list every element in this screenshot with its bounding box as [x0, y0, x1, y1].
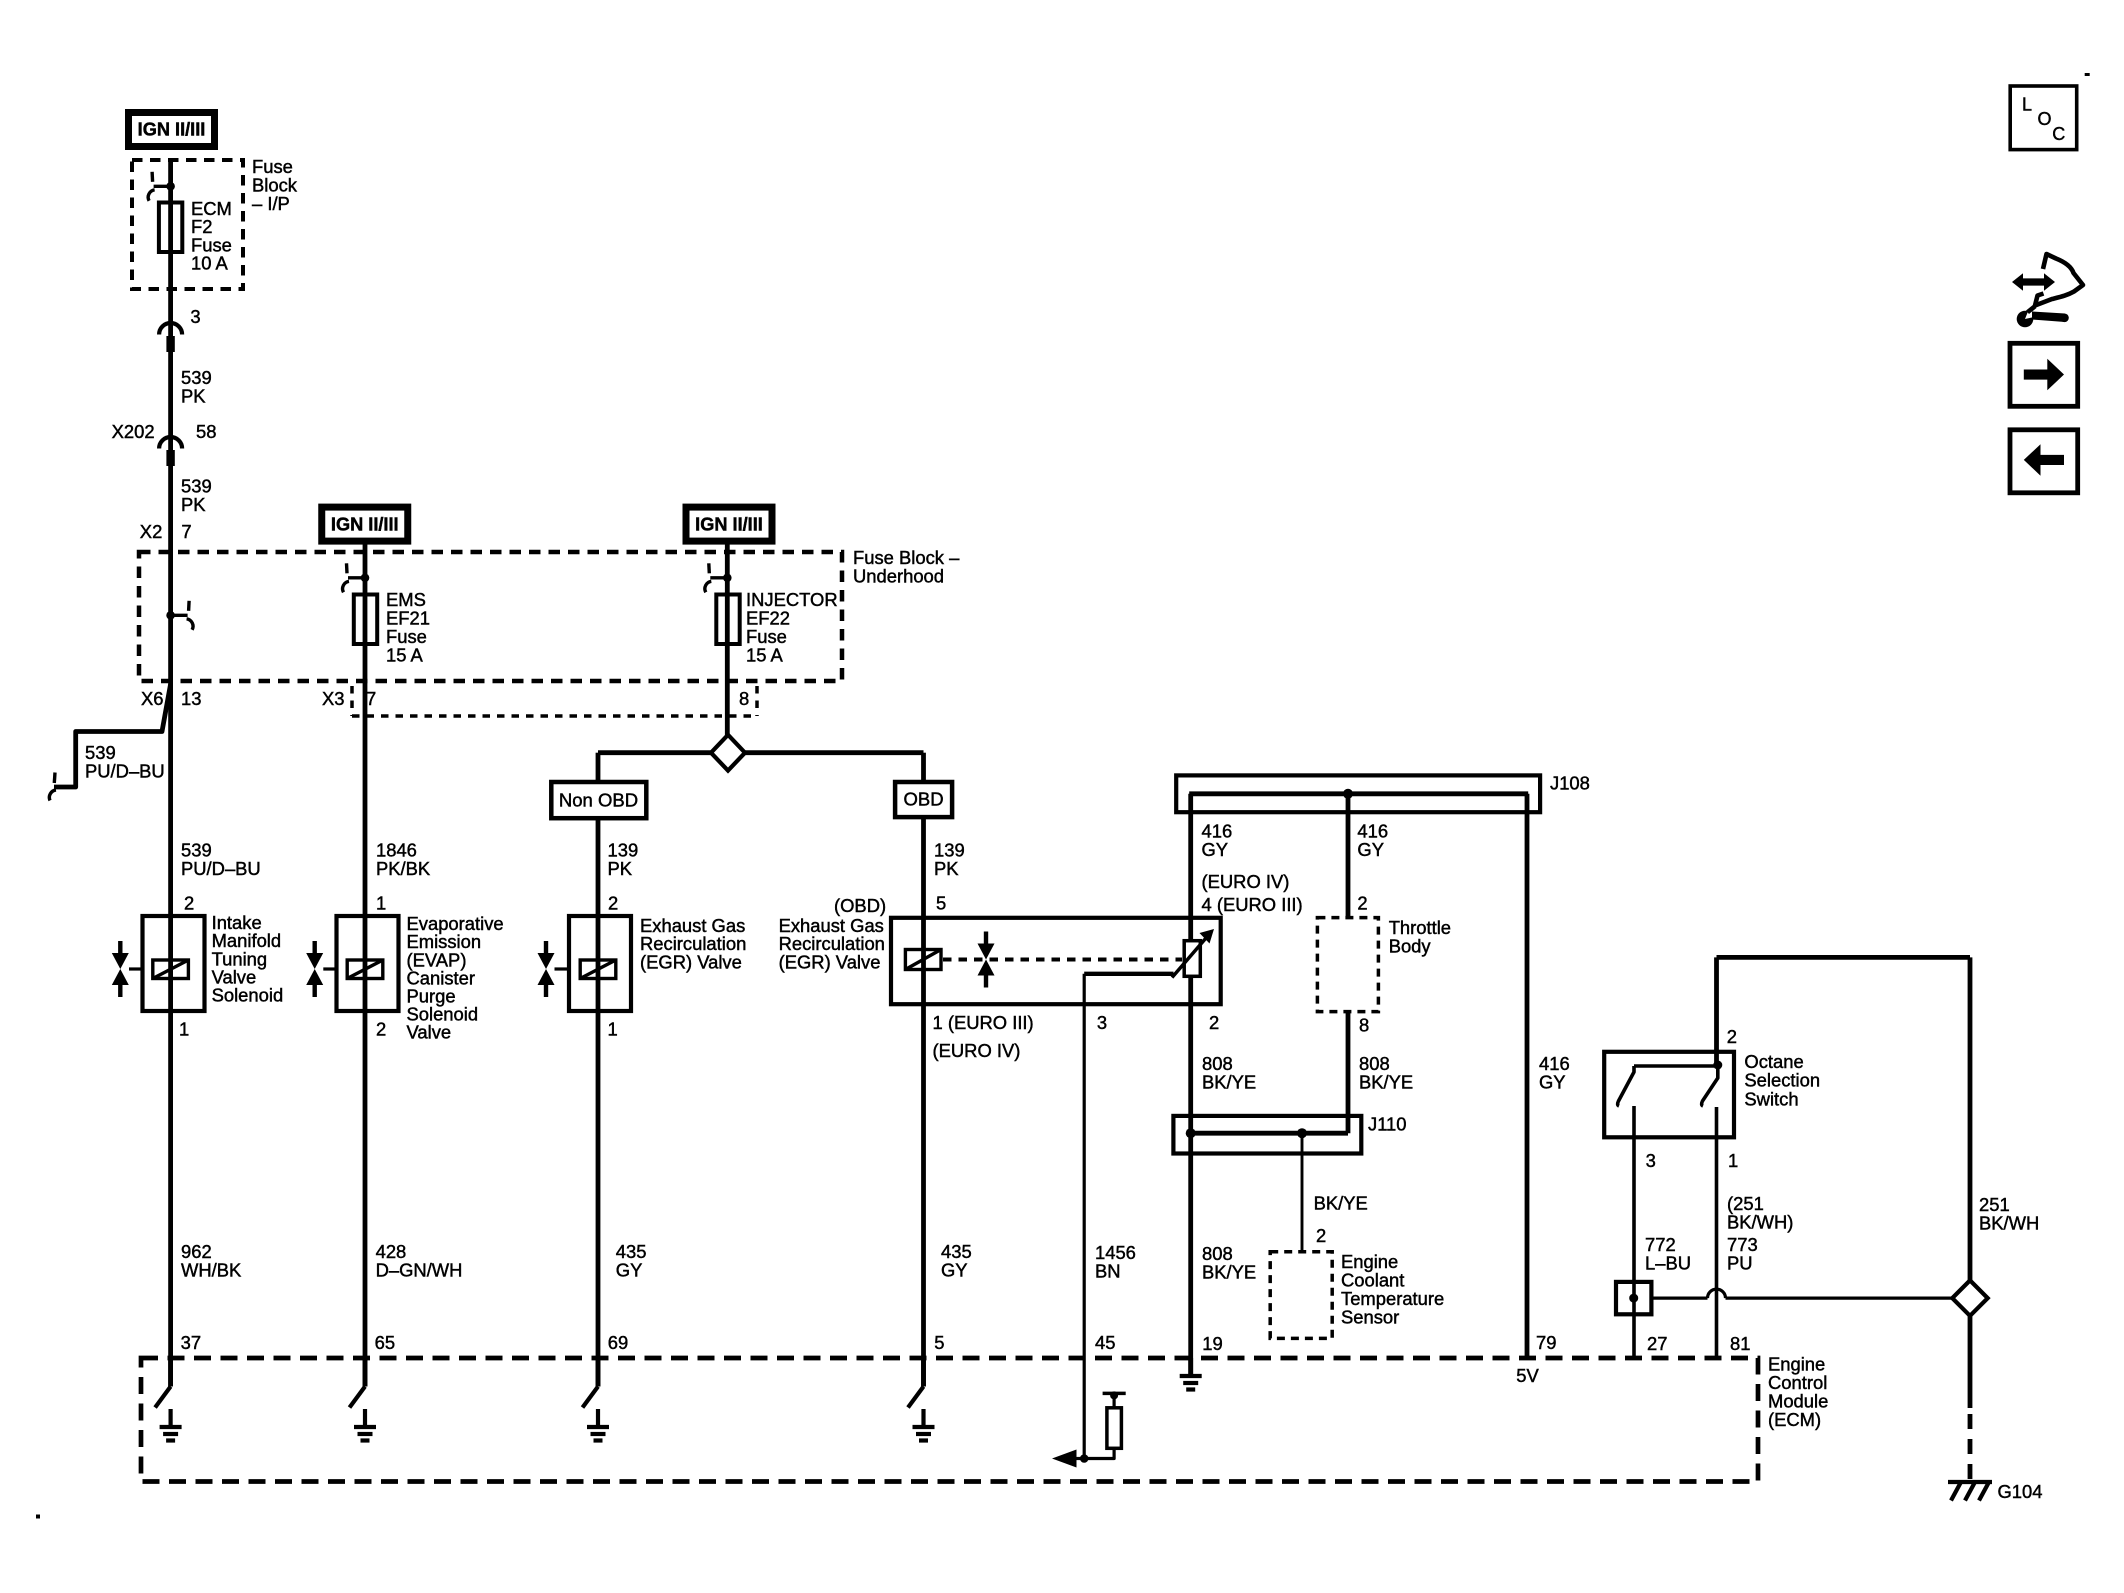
svg-text:C: C — [2052, 124, 2065, 144]
EVAP canister purge solenoid valve box — [337, 916, 399, 1011]
svg-text:1: 1 — [376, 893, 386, 914]
J108 internal bus — [1189, 791, 1528, 796]
svg-text:PK: PK — [608, 858, 633, 879]
svg-text:IGN II/III: IGN II/III — [695, 514, 763, 534]
svg-text:PU/D–BU: PU/D–BU — [181, 858, 261, 879]
wire 139 PK to OBD branch — [745, 750, 924, 755]
svg-text:15 A: 15 A — [746, 644, 784, 665]
ECM internal ground, pin 37 — [168, 1358, 173, 1387]
wrench icon — [2017, 311, 2034, 328]
wire 808 BK/YE from EGR pin 2 through J110 to ECM pin 19 — [1188, 976, 1193, 1376]
ECM internal: arrow + pull-up resistor at pin 45 — [1074, 1457, 1084, 1460]
svg-text:58: 58 — [196, 421, 216, 442]
ECM internal ground, pin 69 — [596, 1358, 601, 1387]
EGR position sensor (potentiometer) — [1184, 941, 1200, 977]
Fuse Block - I/P dashed enclosure — [132, 160, 243, 289]
svg-text:(EGR) Valve: (EGR) Valve — [779, 951, 881, 972]
svg-text:Body: Body — [1389, 936, 1432, 957]
svg-text:IGN II/III: IGN II/III — [331, 514, 399, 534]
svg-text:O: O — [2038, 109, 2052, 129]
svg-text:7: 7 — [181, 521, 191, 542]
svg-text:37: 37 — [181, 1332, 201, 1353]
svg-text:27: 27 — [1647, 1333, 1667, 1354]
wire 808 BK/YE throttle body pin 8 to J110 — [1346, 1012, 1351, 1133]
svg-text:Valve: Valve — [407, 1022, 452, 1043]
J110 internal bus — [1189, 1131, 1348, 1136]
J108 bus junction — [1343, 789, 1353, 799]
svg-text:2: 2 — [184, 893, 194, 914]
svg-text:GY: GY — [616, 1260, 643, 1281]
chassis ground G104 — [1948, 1480, 1992, 1484]
svg-text:BK/WH: BK/WH — [1979, 1213, 2039, 1234]
svg-text:8: 8 — [1359, 1015, 1369, 1036]
wire 251 BK/WH to ground G104 — [1968, 1316, 1973, 1408]
svg-text:2: 2 — [376, 1019, 386, 1040]
fuse clip terminal INJECTOR EF22 — [723, 574, 732, 583]
svg-text:X3: X3 — [322, 688, 345, 709]
power flag IGN II/III (top left) — [125, 109, 218, 150]
octane switch blade (right) — [1702, 1066, 1718, 1106]
svg-text:45: 45 — [1095, 1332, 1115, 1353]
svg-text:X6: X6 — [141, 688, 164, 709]
vacuum valve symbol (EVAP) — [313, 941, 317, 954]
svg-text:3: 3 — [1646, 1150, 1656, 1171]
LOC legend box — [2010, 86, 2077, 150]
wire 139 PK / 435 GY (OBD EGR) — [921, 817, 926, 1387]
EGR internal control dashed link — [943, 958, 1182, 962]
svg-text:79: 79 — [1536, 1332, 1556, 1353]
svg-text:Solenoid: Solenoid — [212, 985, 284, 1006]
svg-text:X2: X2 — [140, 521, 163, 542]
wire 773 PU octane pin 1 to ECM pin 81 — [1715, 1107, 1719, 1358]
solenoid coil (EVAP) — [347, 960, 383, 979]
svg-text:(EURO IV): (EURO IV) — [1202, 871, 1290, 892]
forward arrow legend box — [2010, 343, 2078, 406]
svg-text:1: 1 — [179, 1019, 189, 1040]
junction dot in connector — [1629, 1294, 1638, 1303]
vacuum valve symbol (intake manifold tuning valve) — [118, 941, 122, 954]
ECM internal ground, pin 65 — [363, 1358, 368, 1387]
svg-text:X202: X202 — [112, 421, 155, 442]
svg-text:2: 2 — [1209, 1012, 1219, 1033]
fuse ECM F2 10A — [159, 203, 182, 253]
svg-text:(OBD): (OBD) — [834, 895, 886, 916]
svg-text:J108: J108 — [1550, 773, 1590, 794]
svg-text:19: 19 — [1202, 1333, 1222, 1354]
wire resistor top stub — [1112, 1393, 1115, 1407]
svg-text:2: 2 — [608, 893, 618, 914]
fuse clip terminal EMS EF21 — [361, 574, 370, 583]
terminal hook at left end of 539 PU/D-BU branch — [53, 773, 57, 784]
vacuum valve symbol (EGR Non OBD) — [544, 941, 548, 954]
svg-text:IGN II/III: IGN II/III — [138, 120, 206, 140]
svg-text:4 (EURO III): 4 (EURO III) — [1202, 894, 1303, 915]
svg-text:L–BU: L–BU — [1645, 1253, 1691, 1274]
valve-to-solenoid dash (EVAP) — [323, 967, 335, 970]
svg-text:PK: PK — [181, 386, 206, 407]
svg-text:Non OBD: Non OBD — [559, 790, 638, 811]
svg-text:PU: PU — [1727, 1253, 1753, 1274]
svg-text:13: 13 — [181, 688, 201, 709]
Fuse Block - Underhood dashed enclosure — [139, 552, 842, 681]
solenoid coil (EGR Non OBD) — [580, 960, 616, 979]
svg-text:PK: PK — [181, 494, 206, 515]
splice diamond (251 BK/WH) — [1952, 1280, 1987, 1315]
splice pack J110 — [1173, 1116, 1361, 1154]
svg-text:Sensor: Sensor — [1341, 1306, 1399, 1327]
EGR valve (OBD) outline box — [891, 918, 1221, 1004]
power flag IGN II/III (EMS fuse) — [318, 504, 411, 545]
wiper arrowhead — [1200, 929, 1215, 944]
svg-text:BK/YE: BK/YE — [1314, 1193, 1368, 1214]
wire 539 PK / PU/D-BU / 962 WH/BK (left chain) — [168, 160, 173, 1387]
wire to octane switch pin 2 — [1714, 957, 1719, 1065]
left-pointing arrowhead — [1052, 1450, 1077, 1468]
junction dot at pin45 node — [1080, 1454, 1089, 1463]
svg-text:PK/BK: PK/BK — [376, 858, 431, 879]
branch wire 539 PU/D-BU to the left at X6/13 — [54, 684, 171, 787]
wire resistor bottom to node — [1084, 1448, 1114, 1458]
wire 416 GY from J108 to throttle body pin 2 — [1346, 794, 1351, 918]
svg-text:GY: GY — [1202, 839, 1229, 860]
Engine Control Module (ECM) dashed enclosure — [141, 1358, 1758, 1482]
intake manifold tuning valve solenoid box — [143, 916, 205, 1011]
resistor (ECM internal) — [1107, 1408, 1122, 1449]
svg-text:BK/YE: BK/YE — [1202, 1262, 1256, 1283]
fuse clip terminal in I/P fuse block — [166, 182, 175, 191]
svg-text:GY: GY — [1539, 1072, 1566, 1093]
svg-text:G104: G104 — [1998, 1481, 2043, 1502]
solenoid coil (intake manifold tuning valve) — [153, 960, 189, 979]
svg-text:5: 5 — [934, 1332, 944, 1353]
double-headed arrow — [2012, 273, 2055, 290]
connector X202 pin 58 — [159, 437, 182, 449]
wire 139 PK / 435 GY (Non OBD EGR) — [596, 818, 601, 1387]
svg-text:5: 5 — [936, 893, 946, 914]
svg-text:(EURO IV): (EURO IV) — [933, 1040, 1021, 1061]
svg-text:– I/P: – I/P — [252, 193, 290, 214]
wire 416 GY from J108 to EGR pin 4 — [1188, 794, 1193, 941]
stray mark bottom left — [36, 1515, 40, 1519]
svg-text:3: 3 — [190, 306, 200, 327]
wire (dashed) to G104 — [1968, 1414, 1973, 1479]
backward arrow legend box — [2010, 430, 2078, 493]
vacuum valve symbol (EGR OBD) — [984, 932, 988, 945]
svg-text:5V: 5V — [1516, 1365, 1539, 1386]
svg-text:Underhood: Underhood — [853, 566, 944, 587]
wire 772 L-BU octane pin 3 to ECM pin 27 — [1632, 1106, 1636, 1358]
svg-text:69: 69 — [608, 1332, 628, 1353]
svg-text:2: 2 — [1316, 1225, 1326, 1246]
svg-text:15 A: 15 A — [386, 644, 424, 665]
svg-text:10 A: 10 A — [191, 252, 229, 273]
svg-text:GY: GY — [1357, 839, 1384, 860]
svg-text:GY: GY — [941, 1260, 968, 1281]
power flag IGN II/III (INJECTOR fuse) — [683, 504, 776, 545]
svg-text:WH/BK: WH/BK — [181, 1260, 242, 1281]
svg-text:(ECM): (ECM) — [1768, 1409, 1821, 1430]
connector X3 dotted outline (pins 7 and 8) — [350, 686, 354, 716]
svg-text:1: 1 — [608, 1019, 618, 1040]
octane switch blade (left) — [1618, 1066, 1634, 1106]
wire 251 BK/WH right drop — [1968, 957, 1973, 1280]
svg-text:81: 81 — [1730, 1333, 1750, 1354]
svg-text:D–GN/WH: D–GN/WH — [376, 1260, 463, 1281]
svg-text:BK/YE: BK/YE — [1359, 1072, 1413, 1093]
fuse EMS EF21 15A — [354, 595, 377, 645]
svg-text:3: 3 — [1097, 1012, 1107, 1033]
fuse INJECTOR EF22 15A — [716, 595, 739, 645]
OBD flag box — [895, 782, 952, 817]
throttle body dashed box — [1317, 918, 1378, 1012]
wiper output wire inside EGR — [1084, 972, 1173, 976]
wire (251 BK/WH) from connector to diamond splice, hopping over 773 PU — [1651, 1296, 1707, 1299]
svg-text:BN: BN — [1095, 1261, 1121, 1282]
J110 bus junction left — [1186, 1128, 1196, 1138]
valve-to-solenoid dash — [129, 967, 141, 970]
solenoid coil (EGR OBD) — [905, 950, 941, 970]
wire BK/YE to engine coolant temperature sensor pin 2 — [1301, 1133, 1304, 1252]
potentiometer wiper arrow — [1172, 938, 1206, 978]
J110 bus junction (ECT branch) — [1297, 1128, 1307, 1138]
terminal clip (underhood block, X2/7 wire) — [166, 611, 175, 620]
wire 1846 PK/BK / 428 D-GN/WH (EVAP chain) — [363, 544, 368, 1387]
wire 416 GY from J108 to ECM pin 79 (5V) — [1525, 794, 1530, 1359]
Non OBD flag box — [551, 782, 646, 818]
left arrow — [2024, 444, 2064, 476]
connector pin 3 (fuse block I/P output) — [159, 323, 182, 334]
svg-text:BK/YE: BK/YE — [1202, 1072, 1256, 1093]
octane selection switch box — [1604, 1052, 1734, 1138]
svg-text:J110: J110 — [1368, 1113, 1407, 1134]
svg-text:BK/WH): BK/WH) — [1727, 1212, 1793, 1233]
ECM internal ground, pin 19 — [1188, 1358, 1193, 1376]
svg-text:7: 7 — [366, 688, 376, 709]
svg-text:L: L — [2022, 95, 2032, 115]
svg-text:2: 2 — [1727, 1026, 1737, 1047]
svg-text:2: 2 — [1357, 893, 1367, 914]
valve-to-solenoid dash (EGR) — [555, 967, 569, 970]
svg-text:(EGR) Valve: (EGR) Valve — [640, 951, 742, 972]
engine coolant temperature sensor dashed box — [1270, 1252, 1332, 1339]
svg-text:PK: PK — [934, 858, 959, 879]
splice pack J108 — [1176, 775, 1540, 812]
svg-text:PU/D–BU: PU/D–BU — [85, 761, 165, 782]
wire 1456 BN to ECM pin 45 — [1083, 974, 1086, 1459]
component outline — [2035, 254, 2083, 306]
in-line connector square on 772 L-BU — [1616, 1282, 1651, 1314]
wire 251 BK/WH top loop — [1717, 955, 1971, 960]
ECM internal ground, pin 5 — [921, 1358, 926, 1387]
wire 139 PK to Non OBD branch — [598, 750, 711, 755]
splice diamond (139 PK) — [711, 735, 745, 771]
wire 139 PK from INJECTOR fuse to splice — [725, 544, 730, 736]
right arrow — [2024, 359, 2064, 391]
octane switch internal link — [1634, 1064, 1718, 1068]
EGR valve (Non OBD) box — [569, 916, 631, 1011]
switch common junction — [1713, 1061, 1722, 1070]
svg-text:Switch: Switch — [1744, 1088, 1798, 1109]
svg-text:1 (EURO III): 1 (EURO III) — [933, 1012, 1034, 1033]
svg-text:65: 65 — [375, 1332, 395, 1353]
svg-text:1: 1 — [1728, 1150, 1738, 1171]
resistor top tie bar — [1103, 1392, 1126, 1396]
svg-text:8: 8 — [739, 688, 749, 709]
svg-text:OBD: OBD — [904, 789, 944, 810]
